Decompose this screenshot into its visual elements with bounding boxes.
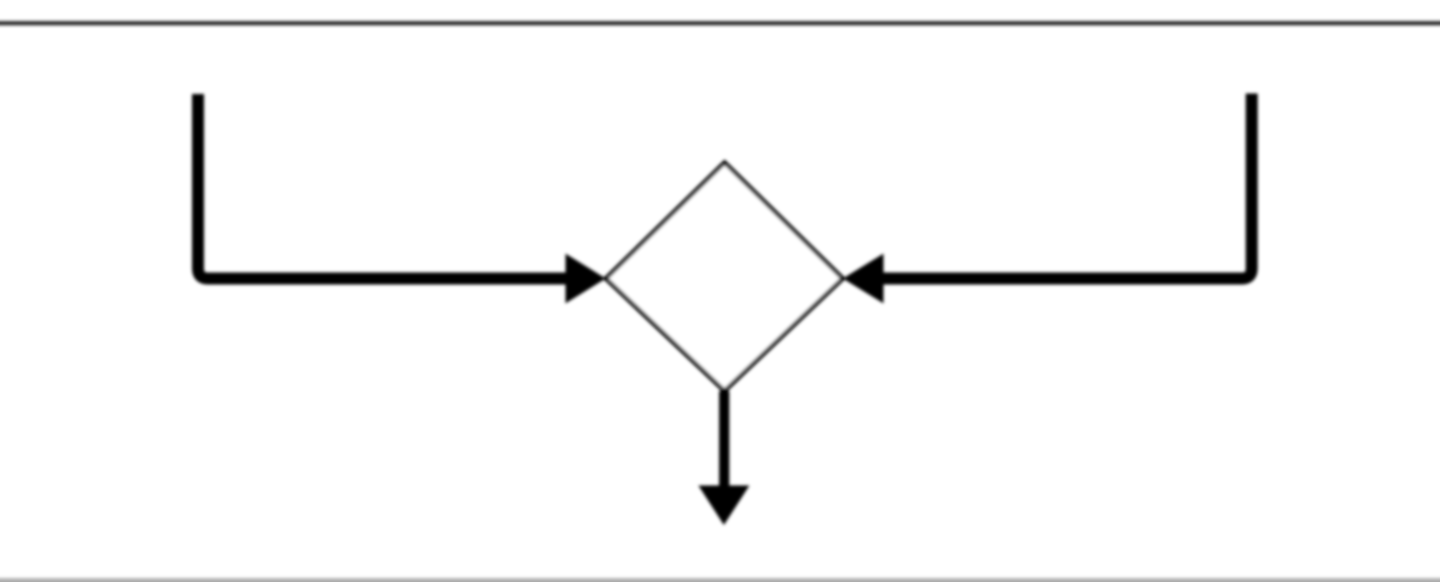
wire: right connector (vertical + horizontal, rounded corner) (883, 94, 1252, 279)
wire: left connector (vertical + horizontal, rounded corner) (198, 94, 567, 279)
top border line (0, 21, 1440, 25)
arrowhead into diamond right vertex (843, 254, 884, 304)
decision diamond node (606, 163, 843, 392)
bottom gray edge band (0, 578, 1440, 582)
arrowhead into diamond left vertex (566, 254, 606, 304)
wire: bottom connector from diamond bottom vertex (719, 391, 729, 487)
arrowhead pointing down (698, 486, 749, 526)
